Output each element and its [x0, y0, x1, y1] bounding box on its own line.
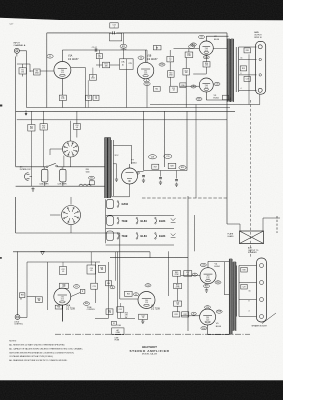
wire to phase box [227, 224, 240, 231]
wire V2 screen [213, 48, 227, 50]
bottom film border [0, 380, 283, 400]
resistor R8 [153, 46, 161, 50]
splitter B box 6 [182, 312, 189, 317]
wire T1 leads [113, 146, 131, 182]
heater rail top [106, 214, 174, 216]
capacitor C15 [170, 86, 177, 92]
filter capacitor C7A [120, 59, 134, 70]
label V5A [66, 305, 76, 311]
resistor R22 [120, 33, 127, 59]
splitter B box 4 [174, 301, 182, 306]
wire V4 plate [208, 261, 229, 267]
triode V1B [137, 62, 153, 85]
plate label R2 [47, 55, 53, 59]
wire V1A cathode [61, 79, 63, 96]
wire left boundary [15, 57, 17, 167]
AC interlock plug [25, 173, 33, 181]
plate resistor R10 [159, 63, 165, 66]
splitter B box 5 [173, 312, 180, 317]
triode V1A [54, 62, 71, 79]
box C10 [87, 252, 96, 274]
heater row3 f1 [117, 233, 128, 240]
resistor R25 [28, 111, 35, 186]
B+ feed lower [224, 262, 229, 295]
capacitor C13 [110, 23, 227, 35]
corner stamp [10, 24, 14, 26]
label R40 [84, 302, 90, 306]
wire phase box right [263, 218, 280, 231]
power transformer T1 secondary [108, 138, 114, 199]
wire top loop corner [46, 33, 48, 108]
resistor R13 [168, 71, 175, 78]
power transformer T1 primary [105, 138, 108, 199]
label tone [87, 307, 95, 311]
wire c12 [119, 303, 121, 318]
choke L1 [79, 184, 91, 186]
box above V5A [59, 283, 68, 288]
output transformer T2 primary [227, 39, 230, 102]
screen feed vertical [196, 95, 229, 198]
label V6B [151, 306, 161, 311]
filter cap to gnd 1 [142, 176, 145, 183]
wire T2 taps [239, 47, 257, 90]
fuse box F1 [112, 328, 124, 335]
resistor R38 [241, 267, 247, 272]
pentode V4 EL84 [192, 263, 221, 292]
capacitor C22 [60, 262, 67, 275]
T2 secondary rails [236, 47, 238, 92]
label fuse [115, 338, 120, 342]
label R29 [179, 166, 186, 170]
note line 1 [9, 344, 65, 347]
label V7 OZ34 [131, 160, 137, 165]
terminal strip TS2 [257, 258, 267, 322]
resistor R55 [125, 313, 129, 319]
switch box SW2 [110, 33, 122, 41]
note line 5 [9, 359, 68, 362]
bus line 2 [16, 110, 235, 112]
heater left drop [105, 199, 107, 243]
box R39 [80, 289, 85, 293]
heater row2 f2 [136, 217, 147, 224]
wire R12 bus [156, 46, 158, 51]
cathode box R44 [106, 252, 148, 324]
label speaker strip [252, 325, 267, 328]
resistor R33 [20, 293, 25, 301]
wire V5 plate [208, 325, 230, 335]
wire mid vertical [71, 68, 93, 108]
heater row2 f1 [117, 217, 128, 224]
long bus lower [13, 252, 150, 258]
label V4 EL84 [215, 263, 221, 268]
box C12 [117, 307, 124, 312]
resistor R18 [244, 48, 250, 53]
rectifier V7 [122, 168, 140, 184]
wire pot top [17, 64, 30, 72]
resistor R26 [40, 111, 47, 167]
label V2 EL84 [214, 36, 220, 41]
label loudness [14, 321, 23, 325]
resistor R19 [240, 58, 246, 90]
wire V3 plate [206, 92, 230, 100]
wire strip A to bus [150, 54, 260, 104]
resistor R21 [96, 62, 120, 68]
chassis arrow [25, 110, 28, 115]
wire V1B plate [145, 50, 147, 62]
wire S2 bottom [70, 225, 72, 234]
terminal strip TS1 [256, 41, 266, 94]
vertical feed 3 [167, 251, 169, 296]
output transformer T3 primary [229, 259, 232, 335]
title stereo amplifier [129, 349, 169, 353]
heater row2 f3 [155, 217, 166, 224]
pentode V5 EL84 [191, 306, 222, 330]
wire V4 grid [181, 274, 200, 276]
output transformer T2 secondary [231, 39, 234, 102]
wire V1B grid [146, 50, 148, 63]
label AC interlock [20, 165, 32, 171]
heater rail mid [106, 228, 174, 230]
right edge dashes [276, 216, 278, 233]
dash-dot baseline [55, 333, 250, 335]
splitter B box 1 [173, 271, 181, 277]
label C20B [57, 184, 67, 186]
vertical feed 1 [187, 196, 189, 331]
fuse box upper [111, 322, 121, 328]
resistor R39b [241, 284, 247, 289]
notes heading [9, 341, 17, 343]
capacitor C17 [244, 76, 250, 81]
heater bus 3 [186, 111, 188, 170]
ground bus PS [16, 185, 105, 187]
screen label R14 [191, 35, 205, 46]
bus B drive [110, 257, 188, 259]
power socket S1 [50, 121, 79, 157]
wire splitter v2 [186, 49, 189, 108]
on-off switch SW1 [16, 163, 105, 167]
dashed divider [142, 197, 227, 199]
pentode V2 EL84 [199, 41, 213, 55]
resistor R4 [59, 95, 66, 100]
speaker socket S2 [50, 197, 81, 225]
wire V2 plate [206, 36, 228, 41]
title heathkit [142, 345, 157, 349]
edge tick 1 [0, 105, 2, 107]
resistor R9 [86, 95, 92, 100]
label INPUT CHANNEL A [14, 43, 26, 47]
wire B+ top run [47, 32, 112, 34]
heater bus 2 [164, 111, 166, 167]
triode V6B [125, 284, 156, 309]
splitter B box 3 [174, 283, 182, 288]
resistor R28 [168, 163, 176, 168]
capacitor C16 [73, 111, 80, 137]
label V5 EL84 [216, 323, 222, 328]
resistor R11 [153, 86, 160, 91]
heater row3 f2 [136, 233, 147, 240]
vertical x95 [95, 262, 97, 303]
resistor R7 [89, 75, 96, 81]
heater V7 filament [117, 201, 128, 208]
ground bus A [27, 107, 231, 109]
cathode R20 [193, 55, 210, 74]
heater row 1 bracket [107, 199, 114, 208]
splitter B box 2 [184, 271, 192, 277]
pentode V3 EL84 [191, 78, 220, 101]
wire V7 top [111, 164, 144, 197]
wire bus 233 [16, 197, 120, 233]
label V1A 12AX7 [68, 55, 79, 61]
note line 4 [9, 355, 53, 358]
wire heater link [144, 170, 188, 172]
wire loudness left [17, 251, 19, 314]
wire V1B cathode [146, 86, 148, 108]
resistor R17 [183, 69, 190, 76]
label C4b [138, 56, 144, 59]
note line 3 [9, 351, 74, 354]
filter capacitor C20B [60, 167, 66, 186]
loudness control R32 [15, 315, 20, 320]
wire socket drop [64, 156, 71, 167]
resistor R3 [30, 69, 54, 75]
impedance labels [249, 291, 251, 313]
heater rail bottom [106, 244, 174, 246]
choke label C19 [164, 154, 172, 158]
wire to V3 grid [180, 85, 199, 87]
label V1B 12AX7 [147, 56, 158, 61]
wire V1A plate [62, 50, 147, 62]
wire fuse bus [95, 317, 135, 319]
label V3 EL84 [214, 95, 220, 100]
triode V5A [54, 288, 71, 305]
wire C7A to bus [125, 69, 127, 107]
input jack J1 [14, 48, 26, 56]
title model [142, 353, 158, 356]
heater arrows r2 [171, 218, 176, 222]
wire v5a right [71, 292, 81, 296]
box C23 [91, 283, 98, 289]
wire fuse verticals [108, 251, 117, 318]
output transformer T3 secondary [233, 262, 236, 331]
resistor R15 [185, 52, 193, 58]
T3 secondary rails [237, 266, 239, 317]
label phase box [228, 232, 235, 237]
wire input down-bus [26, 51, 28, 108]
resistor R27 [152, 164, 159, 169]
filter cap to gnd 2 [159, 171, 162, 185]
label main output [254, 31, 262, 39]
resistor R30 [86, 169, 95, 185]
volume control R1 [19, 64, 26, 77]
ground sym PS [31, 187, 34, 191]
heater bus 1 [143, 111, 145, 170]
coupling capacitor C2 [92, 47, 103, 67]
box R34 [55, 305, 62, 309]
vertical feed 2 [194, 215, 196, 251]
resistor R16b [180, 83, 186, 88]
top film border [0, 0, 283, 20]
capacitor C5 [167, 56, 174, 62]
box R31 [98, 265, 105, 272]
filter cap to gnd 3 [175, 171, 178, 187]
node label C6 [189, 45, 195, 49]
resistor R35 [27, 262, 48, 310]
wire T2 center tap [226, 64, 229, 66]
wire V5 grid [181, 315, 200, 317]
edge tick 2 [0, 257, 2, 259]
wire tone bus [27, 251, 100, 262]
phase reversal box [240, 231, 264, 244]
bus line 3 [17, 119, 227, 121]
wire to V2 grid [174, 48, 200, 50]
note line 2 [9, 348, 83, 351]
wire R4 to bus [61, 101, 63, 108]
wire splitter v1 [169, 50, 171, 86]
pointer line [262, 313, 276, 324]
wire V6B grid [120, 233, 138, 299]
heater arrows r3 [171, 234, 176, 238]
B+ vertical line [226, 33, 228, 224]
choke label C18 [149, 155, 157, 159]
wire V5A cathode drop [62, 305, 64, 321]
wire T3 taps [239, 266, 257, 317]
splitter wires [177, 276, 179, 312]
filter capacitor C20A [42, 167, 48, 186]
label aux output [248, 247, 259, 255]
dashed B+ return [250, 100, 252, 258]
label C11 [74, 285, 80, 289]
heater row 3 bracket [107, 231, 114, 241]
heater row 2 bracket [107, 216, 114, 226]
label C20A [39, 183, 49, 186]
wire loudness right [20, 262, 28, 318]
heater row3 f3 [155, 233, 166, 240]
capacitor C3 [93, 95, 99, 100]
